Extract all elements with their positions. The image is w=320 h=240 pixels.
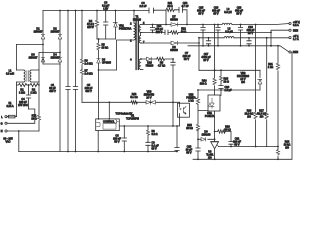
capacitor C15 output [201,25,205,46]
capacitor C4 [26,85,30,109]
optocoupler U2B [178,102,190,117]
svg-text:SB560: SB560 [170,49,178,52]
diode D7 rectifier [171,23,177,27]
resistor R5 [97,39,100,58]
terminal RTN out [289,29,291,31]
capacitor C19b output [247,38,251,46]
svg-text:2.4 MΩ: 2.4 MΩ [85,73,93,76]
svg-text:6.8 mH: 6.8 mH [6,73,14,76]
wire D1 column [42,11,44,65]
svg-text:10 Ω: 10 Ω [181,30,186,33]
svg-text:EER28: EER28 [133,19,142,22]
wire C17 column [214,25,216,71]
svg-text:RTN: RTN [293,51,298,54]
capacitor C13 snubber [179,7,183,12]
svg-text:N: N [1,130,3,133]
inductor L1 common-mode choke [17,70,40,82]
U1 TOPSwitch [96,119,120,152]
diode D9 [198,138,215,142]
svg-text:UF4005: UF4005 [102,62,112,65]
junction dots [59,52,61,54]
wire D8 row [140,38,199,71]
svg-text:1N4148: 1N4148 [202,134,211,137]
svg-text:50 V: 50 V [184,58,189,61]
svg-text:35 V: 35 V [198,13,203,16]
svg-text:1 MΩ: 1 MΩ [30,92,36,95]
junction dots [108,101,174,103]
svg-text:400 V: 400 V [49,90,56,93]
wire AC phase L node [17,44,44,46]
resistor R16 divider [254,25,257,147]
svg-text:1 kΩ: 1 kΩ [268,66,273,69]
svg-text:50 V: 50 V [234,144,239,147]
terminal N input [5,130,7,132]
svg-text:1 MΩ: 1 MΩ [19,92,25,95]
resistor R17 divider [265,38,268,147]
junction dots [28,84,30,86]
svg-text:24 V: 24 V [146,96,151,99]
wire clamp bottom [97,38,116,40]
wire V pin row [82,101,180,103]
wire D2 column [59,11,61,152]
svg-text:10 kΩ: 10 kΩ [102,47,109,50]
svg-text:25 V: 25 V [248,32,253,35]
svg-text:1%: 1% [260,116,264,119]
resistor R14 [213,70,216,95]
svg-text:2.4 MΩ: 2.4 MΩ [85,63,93,66]
junction dots [208,37,268,39]
svg-text:SB560: SB560 [170,19,178,22]
wire V pin drop [108,102,110,119]
svg-text:CONTROL: CONTROL [103,121,115,124]
svg-text:20 Ω: 20 Ω [224,81,229,84]
wire RTN row [140,30,288,46]
svg-text:10 Ω: 10 Ω [167,5,172,8]
junction dots [152,32,272,47]
wire feedback supply [199,69,260,71]
capacitor C6 clamp [104,11,108,40]
junction dots [140,58,142,60]
svg-text:4.7 nF: 4.7 nF [181,5,189,8]
capacitor C8 control [122,126,126,152]
wire CONTROL pin [119,125,179,127]
capacitor C7 bias [171,59,175,126]
svg-text:50 V: 50 V [152,148,157,151]
svg-text:4: 4 [130,59,132,62]
fuse F1 [7,115,17,118]
capacitor C21 comp [229,132,233,147]
junction dots [98,118,110,120]
svg-text:1%: 1% [247,116,251,119]
resistor R12 [171,31,179,34]
terminal L input [5,116,9,118]
svg-text:1 kΩ: 1 kΩ [188,100,193,103]
optocoupler U2A [208,95,220,111]
svg-text:10 Ω: 10 Ω [31,118,36,121]
junction dots [198,37,200,44]
svg-text:1 kV: 1 kV [103,8,108,11]
svg-text:1.7 A: 1.7 A [293,38,299,41]
junction dots [277,45,279,148]
capacitor C19 [196,139,200,159]
junction dots [214,69,222,71]
junction dots [197,158,279,160]
resistor R18 [267,147,280,160]
wire AC phase N node [39,52,60,54]
junction dots [123,125,178,127]
svg-text:1N4007: 1N4007 [51,57,60,60]
wire rail A +15V [142,24,289,25]
wire +5V rail [199,37,288,39]
wire snubber drop [165,11,167,25]
wire opto emitter to control [179,117,181,126]
svg-text:2%: 2% [208,156,212,159]
diode D4 [58,58,62,62]
svg-text:L: L [1,116,3,119]
resistor R7 line sense [80,69,83,102]
svg-text:5.1 kΩ: 5.1 kΩ [130,96,137,99]
bias diode D10 [140,57,156,61]
capacitor C1 bulk [66,11,70,152]
resistor R21 preload [276,46,279,147]
resistor R6 line sense [80,11,83,70]
resistor R8 [146,126,149,135]
diode D2 [58,35,62,39]
wire VR2 to LED [198,90,260,95]
svg-text:35 V: 35 V [213,13,218,16]
wire snubber top link [176,10,187,25]
transformer T1 [134,11,143,70]
svg-text:16 V: 16 V [203,59,208,62]
zener VR3 [146,100,155,104]
junction dots [202,45,272,47]
svg-text:3.3 µH: 3.3 µH [225,31,233,34]
wire secondary ground bus [193,52,292,159]
svg-text:2: 2 [130,23,132,26]
junction dots [98,38,100,40]
svg-text:0.8 A: 0.8 A [293,24,299,27]
resistor R1 [17,83,29,86]
wire LED cathode down [214,111,216,142]
svg-text:1%: 1% [285,147,289,150]
capacitor C2 bulk [73,11,77,152]
wire earth link [7,109,35,123]
resistor R10 [131,101,138,104]
TVS VR1 [113,11,117,40]
svg-text:RTN: RTN [293,29,298,32]
svg-text:10 kΩ: 10 kΩ [186,127,193,130]
capacitor C9 [146,135,150,151]
thermistor RT1 [37,53,40,132]
svg-text:275 VAC: 275 VAC [18,104,28,107]
diode D8 rectifier [171,41,177,45]
junction dots [98,69,100,71]
capacitor C12 series [165,30,168,34]
wire drain node [99,40,135,70]
svg-text:VAC: VAC [6,141,11,144]
node dots top bus [59,10,135,12]
svg-text:50 V: 50 V [114,141,119,144]
svg-text:100 Ω: 100 Ω [200,83,207,86]
zener VR2 [258,70,262,90]
terminal G input [5,122,7,124]
capacitor C20b small [206,38,210,46]
wire ground rail G1 [188,46,289,52]
diode D3 [41,58,45,62]
svg-text:1N4007: 1N4007 [29,57,38,60]
svg-text:50 V: 50 V [186,152,191,155]
svg-text:3.3 µH: 3.3 µH [224,11,232,14]
svg-text:2.2 nF: 2.2 nF [139,5,147,8]
svg-text:7: 7 [143,41,145,44]
svg-text:1N4007: 1N4007 [34,31,43,34]
svg-text:FR106: FR106 [146,65,154,68]
capacitor C14 winding [150,25,154,33]
capacitor C19a control [176,126,178,152]
svg-text:1/2 W: 1/2 W [87,26,94,29]
terminal RTN2 out [289,51,291,53]
svg-text:400 V: 400 V [85,90,92,93]
diode D1 [41,35,45,39]
junction dots [197,138,199,140]
svg-text:35 V: 35 V [236,13,241,16]
wire bridge bottom [43,63,60,65]
junction dots [18,130,20,132]
svg-text:1N4007: 1N4007 [51,31,60,34]
wire primary ground bus [19,151,177,153]
svg-text:1.5 µF: 1.5 µF [225,89,233,92]
capacitor C20 [219,81,223,90]
junction dots [152,24,257,26]
wire top DC bus [43,9,166,11]
svg-text:1%: 1% [241,81,245,84]
resistor R15 [196,124,199,139]
junction dots [197,89,222,91]
svg-text:G: G [1,123,3,126]
resistor R9 bias [157,57,174,60]
capacitor C2Y safety [149,8,154,13]
shunt U3 TL431 [211,142,219,160]
diode D6 blocking [97,59,101,119]
terminal +15V out [289,22,291,24]
wire LED return [198,111,208,125]
svg-text:3.15 A: 3.15 A [6,105,13,108]
inductor L2 [222,23,232,24]
svg-text:TOP258PN: TOP258PN [126,118,139,121]
junction dots [172,58,174,127]
junction dots [42,44,44,46]
svg-text:6.8 Ω: 6.8 Ω [152,133,158,136]
svg-text:10 kΩ: 10 kΩ [224,128,231,131]
junction dots [214,131,216,141]
wire N to RT1 [7,131,39,152]
resistor R19 comp [215,130,231,133]
svg-text:4.7 kΩ: 4.7 kΩ [158,65,165,68]
svg-text:PC817A: PC817A [205,115,215,118]
resistor R13 [219,70,222,81]
resistor R2 [29,83,40,86]
junction dots [67,151,178,153]
wire L phase vertical [16,45,18,117]
resistor R4 clamp [95,11,98,40]
wire REF line [219,146,267,148]
junction dots [230,146,256,148]
resistor R20 [196,90,199,111]
svg-text:P6KE170A: P6KE170A [119,28,132,31]
capacitor C16 output [216,25,220,46]
resistor R11 snubber [166,8,176,11]
capacitor C18 output [238,25,242,46]
inductor L3 [224,36,234,37]
terminal +5V out [289,37,291,39]
